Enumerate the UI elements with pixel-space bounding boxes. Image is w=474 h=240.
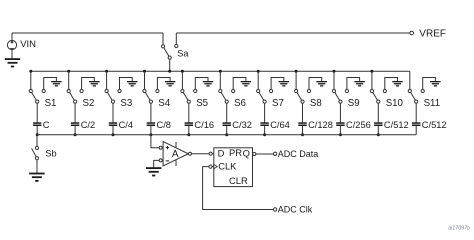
wire capacitor 4 to bottom bus [150,126,152,135]
wire S4 ground throw [157,78,170,90]
capacitor C/2 (2) [71,122,79,126]
svg-text:S6: S6 [234,98,246,109]
wire S2 pole to capacitor [74,103,76,122]
svg-text:C/512: C/512 [422,120,447,130]
svg-text:C/32: C/32 [232,120,252,130]
switch S1 [29,89,45,103]
ground (S5 throw) [203,81,214,87]
wire capacitor 5 to bottom bus [188,126,190,135]
capacitor C/32 (6) [223,122,231,126]
svg-text:C/128: C/128 [308,120,333,130]
wire comparator output to D [192,153,210,155]
switch S10 [370,89,386,103]
svg-text:PR: PR [229,147,242,158]
svg-text:CLK: CLK [218,161,237,172]
label pin PR [229,147,242,158]
svg-text:VREF: VREF [419,29,446,40]
capacitor C/64 (7) [260,122,268,126]
wire capacitor 10 to bottom bus [377,126,379,135]
switch S2 [67,89,83,103]
voltage source VIN [7,40,16,49]
wire S3 ground throw [120,78,133,90]
capacitor C/512 (10) [374,122,382,126]
wire bottom bus to Sb [36,135,38,147]
label pin CLR [229,175,248,186]
label S3 [120,98,132,109]
flip-flop U1 (D latch) [209,148,256,187]
label S10 [386,98,404,109]
wire S10 pole to capacitor [377,103,379,122]
capacitor C/512 (11) [412,122,420,126]
wire S6 ground throw [233,78,246,90]
ground (S7 throw) [279,81,290,87]
ground (S3 throw) [127,81,138,87]
wire top bus to S1 [30,71,32,89]
node bottom bus junction 1 [36,133,39,136]
ground (S4 throw) [165,81,176,87]
svg-text:Sb: Sb [45,149,56,159]
wire S2 ground throw [82,78,95,90]
wire top bus to S8 [295,71,297,89]
svg-text:S10: S10 [386,98,404,109]
node Sa junction on top bus [168,70,171,73]
node top bus junction 1 [29,70,32,73]
wire top bus to S3 [106,71,108,89]
node bottom bus junction 3 [112,133,115,136]
svg-text:VIN: VIN [20,39,36,50]
label S8 [310,98,322,109]
wire top bus to S11 [409,71,411,89]
terminal VREF [410,31,414,35]
svg-text:C/64: C/64 [270,120,290,130]
label S5 [196,98,208,109]
label Sb [45,149,56,159]
wire Q to ADC Data terminal [256,153,273,155]
node top bus junction 3 [105,70,108,73]
wire top bus to S9 [333,71,335,89]
node top bus junction 7 [257,70,260,73]
switch S6 [219,89,235,103]
label S11 [424,98,441,109]
svg-text:Sa: Sa [177,49,189,59]
label C/128 (8) [308,120,333,130]
wire S11 pole to capacitor [415,103,417,122]
label pin CLK [218,161,237,172]
label figure id [448,226,470,232]
svg-text:C/4: C/4 [119,120,133,130]
label C (1) [43,120,50,130]
ground (below Sb) [29,173,44,182]
node bottom bus junction 9 [339,133,342,136]
node top bus junction 8 [295,70,298,73]
wire S1 pole to capacitor [36,103,38,122]
node top bus junction 5 [181,70,184,73]
label ADC Clk [278,204,313,214]
wire Sa pole to top bus [169,59,171,71]
svg-text:A: A [172,149,179,160]
switch Sb [32,146,39,159]
wire comparator - input to ground [154,160,160,167]
node top bus junction 4 [143,70,146,73]
svg-text:D: D [218,148,225,159]
wire capacitor 3 to bottom bus [112,126,114,135]
node bottom bus junction 5 [187,133,190,136]
svg-text:ai17097b: ai17097b [448,226,470,232]
svg-text:S3: S3 [120,98,132,109]
wire S6 pole to capacitor [226,103,228,122]
svg-text:S5: S5 [196,98,208,109]
label S2 [83,98,95,109]
wire top bus to S5 [181,71,183,89]
wire capacitor 9 to bottom bus [339,126,341,135]
wire S8 pole to capacitor [302,103,304,122]
wire S10 ground throw [385,78,398,90]
switch Sa [161,33,178,59]
svg-text:C/512: C/512 [384,120,409,130]
label Sa [177,49,189,59]
label S1 [45,98,57,109]
capacitor C/128 (8) [298,122,306,126]
label C/256 (9) [346,120,371,130]
label C/2 (2) [81,120,95,130]
wire capacitor 7 to bottom bus [264,126,266,135]
node bottom bus junction 7 [263,133,266,136]
wire capacitor 1 to bottom bus [36,126,38,135]
label pin D [218,148,225,159]
node bottom bus junction 8 [301,133,304,136]
svg-text:S2: S2 [83,98,95,109]
wire S7 ground throw [271,78,284,90]
capacitor C/4 (3) [109,122,117,126]
wire S9 ground throw [347,78,360,90]
ground (S9 throw) [354,81,365,87]
label ADC Data [278,149,319,159]
wire top bus to S2 [68,71,70,89]
comparator A [159,142,191,166]
node top bus junction 2 [67,70,70,73]
node bottom bus junction 10 [377,133,380,136]
svg-text:S1: S1 [45,98,57,109]
switch S3 [105,89,121,103]
label S6 [234,98,246,109]
switch S7 [257,89,273,103]
svg-text:S8: S8 [310,98,322,109]
ground (S6 throw) [241,81,252,87]
ground (S11 throw) [430,81,441,87]
wire S9 pole to capacitor [339,103,341,122]
label S4 [158,98,170,109]
label C/32 (6) [232,120,252,130]
node top bus junction 10 [370,70,373,73]
wire top bus to S7 [257,71,259,89]
terminal ADC Data [273,152,276,155]
wire S7 pole to capacitor [264,103,266,122]
ground (S8 throw) [316,81,327,87]
wire capacitor 8 to bottom bus [302,126,304,135]
wire S8 ground throw [309,78,322,90]
label C/64 (7) [270,120,290,130]
switch S8 [295,89,311,103]
node bottom bus junction 6 [225,133,228,136]
svg-text:S9: S9 [348,98,360,109]
label S9 [348,98,360,109]
label C/16 (5) [194,120,214,130]
svg-text:Q: Q [243,147,250,158]
svg-text:C: C [43,120,50,130]
svg-text:C/16: C/16 [194,120,214,130]
svg-text:C/256: C/256 [346,120,371,130]
svg-text:S7: S7 [272,98,284,109]
wire VIN source to ground [11,50,13,59]
wire S4 pole to capacitor [150,103,152,122]
ground (S10 throw) [392,81,403,87]
ground (S2 throw) [89,81,100,87]
svg-text:ADC Clk: ADC Clk [278,204,313,214]
wire VIN rail to Sa [12,32,163,34]
node bottom bus junction 2 [74,133,77,136]
label S7 [272,98,284,109]
switch S9 [332,89,348,103]
wire VIN top stub [11,33,13,40]
wire bottom bus to comparator + input [151,135,159,148]
svg-text:S4: S4 [158,98,170,109]
label A (comparator) [172,149,179,160]
wire capacitor 6 to bottom bus [226,126,228,135]
label VIN [20,39,36,50]
wire capacitor 2 to bottom bus [74,126,76,135]
ground (comparator - input) [146,167,161,176]
svg-text:S11: S11 [424,98,441,109]
terminal ADC Clk [273,208,276,211]
capacitor C/256 (9) [336,122,344,126]
wire S1 ground throw [44,78,57,90]
wire S5 ground throw [195,78,208,90]
node top bus junction 9 [333,70,336,73]
ground (below VIN) [5,58,20,67]
label C/8 (4) [157,120,171,130]
wire top plate bus [31,70,410,72]
node bottom bus junction 4 [149,133,152,136]
capacitor C/16 (5) [185,122,193,126]
capacitor C (1) [33,122,41,126]
svg-text:C/2: C/2 [81,120,95,130]
label VREF [419,29,446,40]
wire S5 pole to capacitor [188,103,190,122]
label pin Q [243,147,250,158]
wire S3 pole to capacitor [112,103,114,122]
ground (S1 throw) [51,81,62,87]
wire VREF rail [176,32,410,34]
wire top bus to S6 [219,71,221,89]
wire top bus to S4 [144,71,146,89]
switch S11 [408,89,424,103]
wire CLK to ADC Clk terminal [203,167,274,210]
svg-text:C/8: C/8 [157,120,171,130]
capacitor C/8 (4) [147,122,155,126]
wire bottom plate bus [37,134,416,136]
wire S11 ground throw [423,78,436,90]
label C/4 (3) [119,120,133,130]
wire Sb to ground [36,160,38,173]
svg-text:ADC Data: ADC Data [278,149,319,159]
switch S5 [181,89,197,103]
svg-text:CLR: CLR [229,175,248,186]
switch S4 [143,89,159,103]
label C/512 (11) [422,120,447,130]
label C/512 (10) [384,120,409,130]
wire capacitor 11 to bottom bus [415,126,417,135]
wire top bus to S10 [371,71,373,89]
node top bus junction 6 [219,70,222,73]
